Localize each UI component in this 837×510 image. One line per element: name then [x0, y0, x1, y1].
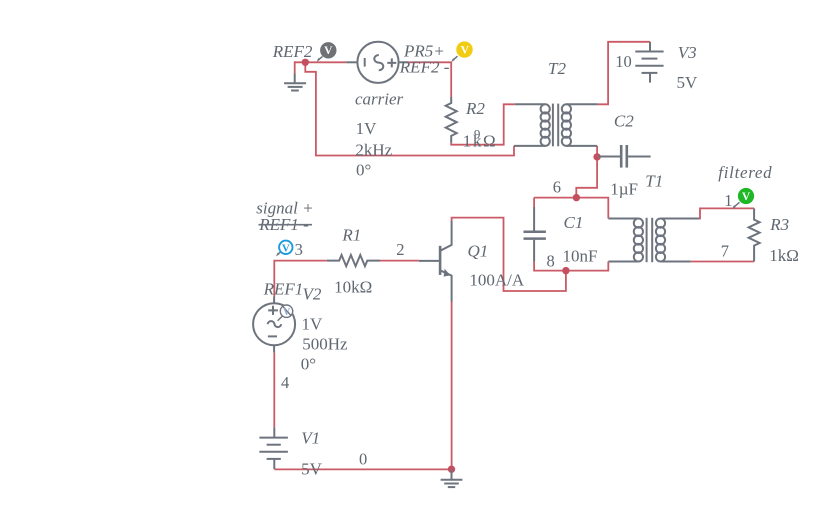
label T2 — [548, 59, 566, 78]
svg-text:9: 9 — [474, 126, 481, 141]
resistor R3 — [749, 208, 760, 261]
resistor R2 — [446, 97, 457, 143]
label signal + — [256, 199, 313, 218]
svg-text:1µF: 1µF — [610, 180, 638, 199]
label C1 — [564, 213, 584, 232]
label 1V of V2 — [302, 315, 324, 334]
label V2 — [303, 285, 322, 304]
label C2 — [614, 112, 634, 131]
glyph V inside V2 probe — [283, 307, 291, 318]
wire bottom rail V1 to ground — [274, 468, 451, 470]
junction node 8 — [562, 267, 569, 274]
svg-text:0: 0 — [359, 450, 367, 469]
label Q1 — [468, 241, 489, 260]
wire ground stub — [294, 61, 296, 73]
label 2kHz of carrier — [355, 140, 392, 159]
capacitor C2 — [598, 145, 651, 168]
label REF2 probe — [272, 42, 313, 61]
wire carrier positive to R2 top — [409, 62, 452, 97]
svg-text:2: 2 — [396, 240, 404, 259]
svg-text:filtered: filtered — [718, 163, 772, 182]
svg-text:C1: C1 — [564, 213, 584, 232]
svg-text:100A/A: 100A/A — [469, 271, 525, 290]
wire T1 secondary top to R3 top (node 1) — [691, 208, 754, 218]
junction node 6 — [573, 194, 580, 201]
svg-text:1: 1 — [724, 191, 732, 210]
label 5V of V3 — [677, 73, 699, 92]
wire REF2 junction to carrier left — [295, 61, 347, 63]
wire node 8 horizontal — [534, 261, 608, 270]
label 1uF of C2 — [610, 180, 638, 199]
svg-text:5V: 5V — [301, 460, 323, 479]
label 500Hz of V2 — [302, 334, 348, 353]
svg-text:500Hz: 500Hz — [302, 334, 348, 353]
transistor Q1 — [419, 221, 452, 302]
svg-text:T1: T1 — [645, 171, 663, 190]
svg-text:0°: 0° — [356, 160, 371, 179]
net 4 — [281, 373, 289, 392]
net 7 — [721, 242, 729, 261]
label 0deg of carrier — [356, 160, 371, 179]
label V3 — [678, 43, 697, 62]
svg-text:R3: R3 — [769, 215, 789, 234]
probe REF2 (dark) — [317, 42, 337, 62]
label filtered — [718, 163, 772, 182]
label 100A/A of Q1 — [469, 271, 525, 290]
svg-text:V: V — [283, 307, 291, 318]
wire T1 secondary bottom to R3 bottom (node 7) — [691, 261, 754, 263]
svg-text:T2: T2 — [548, 59, 566, 78]
wire T2 secondary bottom to C2 node — [596, 146, 598, 157]
svg-text:carrier: carrier — [355, 89, 404, 108]
svg-text:R2: R2 — [465, 99, 485, 118]
label REF1 of V2 probe — [263, 280, 304, 299]
svg-text:1V: 1V — [302, 315, 324, 334]
net 1 — [724, 191, 732, 210]
label 1kOhm of R3 — [769, 246, 799, 265]
svg-text:V1: V1 — [301, 429, 320, 448]
probe signal (cyan) — [276, 241, 293, 257]
label R1 — [341, 226, 361, 245]
net 9 — [474, 126, 481, 141]
svg-text:1kΩ: 1kΩ — [769, 246, 799, 265]
junction node 0 at ground — [448, 466, 455, 473]
svg-text:10: 10 — [615, 52, 632, 71]
svg-text:3: 3 — [295, 240, 303, 259]
ground GND2 at emitter rail — [441, 469, 463, 487]
label R3 — [769, 215, 789, 234]
wire R2 bottom to T2 primary top — [451, 104, 515, 144]
label REF2 - — [399, 57, 450, 76]
svg-text:V: V — [324, 45, 333, 57]
wire node 8 to Q1 collector — [452, 218, 566, 291]
net 0 — [359, 450, 367, 469]
wire R1 right to Q1 base — [380, 260, 419, 262]
svg-text:REF2: REF2 — [272, 42, 313, 61]
wire node 6 horizontal — [534, 198, 608, 219]
label 1kOhm of R2 — [463, 132, 497, 151]
wire Q1 emitter down — [451, 302, 453, 470]
svg-text:2kHz: 2kHz — [355, 140, 392, 159]
label 10kOhm of R1 — [334, 278, 372, 297]
ground GND1 at carrier negative — [284, 74, 306, 91]
label PR5+ — [403, 41, 445, 60]
svg-text:8: 8 — [547, 252, 555, 271]
net 10 — [615, 52, 632, 71]
transformer T1 — [608, 218, 699, 262]
label 0deg of V2 — [301, 355, 316, 374]
svg-text:5V: 5V — [677, 73, 699, 92]
svg-text:0°: 0° — [301, 355, 316, 374]
svg-text:6: 6 — [553, 178, 561, 197]
svg-text:7: 7 — [721, 242, 729, 261]
transformer T2 — [514, 104, 598, 147]
probe filtered (green) — [732, 188, 754, 209]
label REF1 - (struck) — [258, 215, 312, 234]
svg-text:V: V — [742, 191, 751, 203]
net 2 — [396, 240, 404, 259]
svg-text:REF1: REF1 — [263, 280, 304, 299]
svg-text:V: V — [282, 242, 290, 254]
svg-text:C2: C2 — [614, 112, 634, 131]
svg-text:R1: R1 — [341, 226, 361, 245]
svg-text:V: V — [461, 45, 470, 57]
AC source carrier — [346, 42, 408, 83]
label T1 — [645, 171, 663, 190]
svg-text:10kΩ: 10kΩ — [334, 278, 372, 297]
wire V1 top to V2 bottom — [273, 353, 275, 428]
wire node 6 to C1 top — [533, 198, 535, 207]
svg-text:4: 4 — [281, 373, 289, 392]
svg-text:V3: V3 — [678, 43, 697, 62]
label 10nF of C1 — [563, 247, 598, 266]
net 6 — [553, 178, 561, 197]
svg-text:V2: V2 — [303, 285, 322, 304]
net 8 — [547, 252, 555, 271]
label carrier — [355, 89, 404, 108]
svg-text:1V: 1V — [356, 119, 378, 138]
wire carrier negative net to T2 primary bottom — [305, 62, 514, 155]
wire V2 top to node 3 corner — [274, 261, 327, 297]
label R2 — [465, 99, 485, 118]
svg-text:REF2 -: REF2 - — [399, 57, 450, 76]
junction C2 left node — [593, 153, 600, 160]
wire T2 secondary top to V3 — [598, 42, 650, 105]
svg-text:Q1: Q1 — [468, 241, 489, 260]
probe PR5 (yellow) — [451, 41, 472, 62]
net 3 — [295, 240, 303, 259]
battery V1 — [259, 427, 288, 469]
battery V3 — [635, 42, 663, 83]
AC source V2 — [253, 297, 295, 353]
svg-text:10nF: 10nF — [563, 247, 598, 266]
junction node REF2 — [302, 59, 309, 66]
wire C2 node down to node 6 — [576, 157, 597, 198]
resistor R1 — [327, 255, 380, 266]
capacitor C1 — [524, 207, 546, 261]
label 1V of carrier — [356, 119, 378, 138]
label V1 — [301, 429, 320, 448]
label 5V of V1 — [301, 460, 323, 479]
